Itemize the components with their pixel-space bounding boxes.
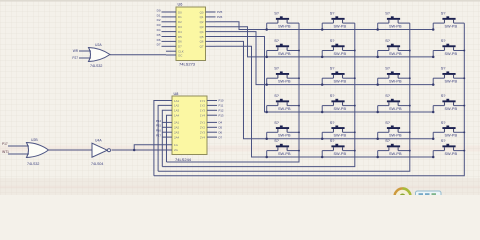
junction dot row6 col4 bbox=[432, 156, 435, 159]
svg-text:OC: OC bbox=[178, 53, 182, 57]
junction dot row2 col4 bbox=[432, 56, 435, 59]
junction dot row6 col3 bbox=[376, 156, 379, 159]
svg-text:S?: S? bbox=[385, 38, 391, 43]
junction dot column2 row4 bbox=[354, 105, 356, 107]
svg-text:74LS273: 74LS273 bbox=[179, 61, 196, 66]
junction dot row2 col2 bbox=[321, 56, 324, 59]
wire U6 Q3 to matrix row2 bbox=[216, 27, 434, 57]
svg-text:S?: S? bbox=[274, 11, 280, 16]
switch S2 SW-PB row1 col2 bbox=[322, 16, 355, 29]
switch S8 SW-PB row2 col4 bbox=[433, 44, 464, 57]
junction dot column1 row3 bbox=[298, 77, 300, 79]
U6 CLK pin stub bbox=[166, 50, 176, 52]
switch S6 SW-PB row2 col2 bbox=[322, 44, 355, 57]
svg-text:S?: S? bbox=[274, 38, 280, 43]
svg-text:D1: D1 bbox=[157, 13, 161, 17]
junction dot row4 col1 bbox=[265, 111, 268, 114]
svg-text:SW-PB: SW-PB bbox=[334, 152, 347, 156]
switch S4 SW-PB row1 col4 bbox=[433, 16, 464, 29]
switch S10 SW-PB row3 col2 bbox=[322, 71, 355, 84]
U8 2A pins stubs with net labels bbox=[156, 119, 172, 138]
svg-text:WR: WR bbox=[73, 49, 79, 53]
svg-text:Q5: Q5 bbox=[200, 35, 204, 39]
junction dot column2 row5 bbox=[354, 131, 356, 133]
junction dot enable branch bbox=[133, 149, 136, 152]
inverter U4A 74LS04 bbox=[92, 143, 111, 157]
junction dot row3 col2 bbox=[321, 83, 324, 86]
svg-text:D1: D1 bbox=[178, 15, 182, 19]
or-gate U2B 74LS32 bbox=[27, 143, 49, 158]
svg-text:Q2: Q2 bbox=[200, 20, 204, 24]
switch S18 SW-PB row5 col2 bbox=[322, 126, 355, 139]
junction dot column1 row2 bbox=[298, 50, 300, 52]
U6 OC pin (driven by gate U2A) bbox=[166, 54, 176, 56]
switch S11 SW-PB row3 col3 bbox=[378, 71, 410, 84]
wire U6 Q2 to matrix row1 bbox=[216, 22, 434, 30]
junction dot column1 row6 bbox=[298, 150, 300, 152]
svg-text:Q6: Q6 bbox=[200, 40, 204, 44]
svg-text:SW-PB: SW-PB bbox=[278, 107, 291, 111]
svg-text:S?: S? bbox=[330, 120, 336, 125]
svg-text:2A4: 2A4 bbox=[174, 135, 180, 139]
svg-text:SW-PB: SW-PB bbox=[389, 25, 402, 29]
U2A input wire WR bbox=[79, 50, 91, 52]
svg-text:SW-PB: SW-PB bbox=[278, 52, 291, 56]
svg-text:74LS244: 74LS244 bbox=[175, 157, 192, 162]
svg-text:S?: S? bbox=[330, 38, 336, 43]
svg-text:SW-PB: SW-PB bbox=[389, 107, 402, 111]
switch S16 SW-PB row4 col4 bbox=[433, 99, 464, 112]
svg-text:P16: P16 bbox=[156, 129, 162, 133]
svg-text:P10: P10 bbox=[219, 99, 224, 103]
svg-text:S?: S? bbox=[274, 66, 280, 71]
svg-text:SW-PB: SW-PB bbox=[445, 80, 458, 84]
svg-text:D6: D6 bbox=[157, 38, 161, 42]
svg-text:S?: S? bbox=[330, 93, 336, 98]
svg-text:D4: D4 bbox=[157, 28, 161, 32]
wire matrix column 3 vertical bbox=[158, 23, 410, 171]
svg-text:D7: D7 bbox=[219, 135, 223, 139]
svg-text:S?: S? bbox=[385, 120, 391, 125]
svg-text:D5: D5 bbox=[157, 33, 161, 37]
junction dot row1 col2 bbox=[321, 28, 324, 31]
svg-text:2A3: 2A3 bbox=[174, 131, 180, 135]
switch S19 SW-PB row5 col3 bbox=[378, 126, 410, 139]
svg-text:U6: U6 bbox=[178, 3, 183, 7]
svg-text:P12: P12 bbox=[219, 109, 224, 113]
svg-text:SW-PB: SW-PB bbox=[389, 152, 402, 156]
svg-text:S?: S? bbox=[385, 11, 391, 16]
svg-text:1A4: 1A4 bbox=[174, 114, 180, 118]
junction dot row2 col1 bbox=[265, 56, 268, 59]
svg-text:Q3: Q3 bbox=[200, 25, 204, 29]
switch S9 SW-PB row3 col1 bbox=[267, 71, 299, 84]
switch S12 SW-PB row3 col4 bbox=[433, 71, 464, 84]
wire U2A output to U6 OC pin bbox=[110, 54, 166, 56]
svg-text:SW-PB: SW-PB bbox=[334, 80, 347, 84]
wire U6 Q5 to matrix row4 bbox=[216, 37, 434, 113]
junction dot column4 row2 bbox=[463, 50, 465, 52]
junction dot column4 row3 bbox=[463, 77, 465, 79]
junction dot column2 row6 bbox=[354, 150, 356, 152]
U2B input wire P17 bbox=[8, 145, 29, 147]
svg-text:SW-PB: SW-PB bbox=[334, 52, 347, 56]
svg-text:Q0: Q0 bbox=[200, 10, 204, 14]
svg-text:SW-PB: SW-PB bbox=[445, 134, 458, 138]
U8 1G pin branch wire bbox=[134, 145, 172, 150]
svg-text:S?: S? bbox=[441, 138, 447, 143]
svg-text:S?: S? bbox=[274, 138, 280, 143]
junction dot row3 col4 bbox=[432, 83, 435, 86]
svg-text:S?: S? bbox=[330, 11, 336, 16]
svg-text:1A1: 1A1 bbox=[174, 99, 180, 103]
switch S1 SW-PB row1 col1 bbox=[267, 16, 299, 29]
svg-text:2A2: 2A2 bbox=[174, 126, 180, 130]
svg-text:D2: D2 bbox=[157, 18, 161, 22]
junction dot column3 row3 bbox=[409, 77, 411, 79]
svg-text:2Y2: 2Y2 bbox=[200, 126, 206, 130]
svg-text:D4: D4 bbox=[178, 30, 182, 34]
wire 1A4 bus bbox=[167, 115, 173, 162]
svg-text:P11: P11 bbox=[219, 104, 224, 108]
junction dot row5 col2 bbox=[321, 137, 324, 140]
svg-text:S?: S? bbox=[385, 138, 391, 143]
junction dot column3 row6 bbox=[409, 150, 411, 152]
wire U6 Q4 to matrix row3 bbox=[216, 32, 434, 85]
junction dot row1 col4 bbox=[432, 28, 435, 31]
switch S22 SW-PB row6 col2 bbox=[322, 144, 355, 157]
switch S21 SW-PB row6 col1 bbox=[267, 144, 299, 157]
svg-text:74LS32: 74LS32 bbox=[90, 64, 102, 68]
U2A input wire P27 bbox=[79, 57, 91, 59]
wire matrix column 1 vertical bbox=[167, 23, 300, 162]
U8 right pins 1Y/2Y stubs with labels bbox=[207, 99, 224, 140]
svg-text:D3: D3 bbox=[157, 23, 161, 27]
junction dot column3 row2 bbox=[409, 50, 411, 52]
junction dot column2 row2 bbox=[354, 50, 356, 52]
svg-text:S?: S? bbox=[330, 138, 336, 143]
svg-text:74LS04: 74LS04 bbox=[91, 162, 103, 166]
switch S5 SW-PB row2 col1 bbox=[267, 44, 299, 57]
wire matrix column 2 vertical bbox=[162, 23, 354, 167]
switch S24 SW-PB row6 col4 bbox=[433, 144, 464, 157]
svg-text:2A1: 2A1 bbox=[174, 121, 180, 125]
junction dot row4 col3 bbox=[376, 111, 379, 114]
switch S17 SW-PB row5 col1 bbox=[267, 126, 299, 139]
switch S7 SW-PB row2 col3 bbox=[378, 44, 410, 57]
svg-text:SW-PB: SW-PB bbox=[278, 80, 291, 84]
junction dot row1 col3 bbox=[376, 28, 379, 31]
junction dot column1 row5 bbox=[298, 131, 300, 133]
or-gate U2A 74LS32 bbox=[89, 48, 111, 62]
svg-text:SW-PB: SW-PB bbox=[334, 25, 347, 29]
svg-text:S?: S? bbox=[441, 93, 447, 98]
junction dot row4 col2 bbox=[321, 111, 324, 114]
junction dot row1 col1 bbox=[265, 28, 268, 31]
svg-text:SW-PB: SW-PB bbox=[389, 80, 402, 84]
svg-text:D0: D0 bbox=[157, 8, 161, 12]
svg-text:SW-PB: SW-PB bbox=[445, 107, 458, 111]
svg-text:SW-PB: SW-PB bbox=[334, 107, 347, 111]
svg-text:D7: D7 bbox=[157, 43, 161, 47]
svg-text:D6: D6 bbox=[178, 40, 182, 44]
svg-text:1A3: 1A3 bbox=[174, 109, 180, 113]
svg-text:U2B: U2B bbox=[31, 138, 38, 142]
svg-text:U4A: U4A bbox=[95, 139, 102, 143]
svg-text:Q4: Q4 bbox=[200, 30, 204, 34]
svg-text:SW-PB: SW-PB bbox=[445, 25, 458, 29]
switch S14 SW-PB row4 col2 bbox=[322, 99, 355, 112]
svg-text:P27: P27 bbox=[72, 56, 78, 60]
svg-text:P14: P14 bbox=[156, 119, 162, 123]
wire U6 Q7 to matrix row6 bbox=[216, 46, 434, 157]
svg-text:D6: D6 bbox=[219, 130, 223, 134]
U6 left data pins D0-D7 with net stubs bbox=[157, 8, 176, 46]
svg-text:SW-PB: SW-PB bbox=[278, 134, 291, 138]
svg-text:1Y4: 1Y4 bbox=[200, 114, 206, 118]
junction dot row5 col3 bbox=[376, 137, 379, 140]
junction dot column3 row5 bbox=[409, 131, 411, 133]
svg-text:S?: S? bbox=[441, 120, 447, 125]
svg-text:D5: D5 bbox=[178, 35, 182, 39]
junction dot column4 row5 bbox=[463, 131, 465, 133]
svg-text:U8: U8 bbox=[174, 92, 179, 96]
wire 1A1 bus bbox=[154, 101, 172, 176]
wire 1A3 bus bbox=[162, 110, 172, 166]
U6 right pins Q0-Q7 bbox=[206, 12, 216, 46]
svg-text:D4: D4 bbox=[219, 121, 223, 125]
wire U6 Q6 to matrix row5 bbox=[216, 41, 434, 138]
svg-text:SW-PB: SW-PB bbox=[278, 152, 291, 156]
svg-text:Q1: Q1 bbox=[200, 15, 204, 19]
svg-text:S?: S? bbox=[274, 93, 280, 98]
watermark text box bbox=[416, 191, 442, 200]
svg-text:S?: S? bbox=[385, 66, 391, 71]
svg-text:SW-PB: SW-PB bbox=[334, 134, 347, 138]
svg-text:Q7: Q7 bbox=[200, 45, 204, 49]
svg-text:D7: D7 bbox=[178, 45, 182, 49]
svg-text:P26: P26 bbox=[217, 15, 223, 19]
svg-text:INT1: INT1 bbox=[2, 150, 9, 154]
svg-text:P13: P13 bbox=[219, 113, 224, 117]
svg-text:2Y1: 2Y1 bbox=[200, 121, 206, 125]
svg-text:1Y2: 1Y2 bbox=[200, 104, 206, 108]
svg-text:S?: S? bbox=[385, 93, 391, 98]
svg-text:D2: D2 bbox=[178, 20, 182, 24]
junction dot column4 row6 bbox=[463, 150, 465, 152]
svg-text:SW-PB: SW-PB bbox=[445, 52, 458, 56]
junction dot column4 row4 bbox=[463, 105, 465, 107]
junction dot column1 row4 bbox=[298, 105, 300, 107]
junction dot column2 row3 bbox=[354, 77, 356, 79]
junction dot row5 col1 bbox=[265, 137, 268, 140]
svg-text:S?: S? bbox=[441, 11, 447, 16]
svg-text:P15: P15 bbox=[156, 124, 162, 128]
switch S15 SW-PB row4 col3 bbox=[378, 99, 410, 112]
junction dot column3 row4 bbox=[409, 105, 411, 107]
svg-text:1Y3: 1Y3 bbox=[200, 109, 206, 113]
svg-text:P25: P25 bbox=[217, 10, 223, 14]
svg-text:1Y1: 1Y1 bbox=[200, 99, 206, 103]
junction dot row3 col3 bbox=[376, 83, 379, 86]
svg-text:D3: D3 bbox=[178, 25, 182, 29]
svg-text:S?: S? bbox=[441, 38, 447, 43]
junction dot row6 col1 bbox=[265, 156, 268, 159]
svg-text:S?: S? bbox=[330, 66, 336, 71]
junction dot row4 col4 bbox=[432, 111, 435, 114]
junction dot row2 col3 bbox=[376, 56, 379, 59]
switch S20 SW-PB row5 col4 bbox=[433, 126, 464, 139]
U2B input wire INT1 bbox=[8, 153, 29, 155]
svg-text:D5: D5 bbox=[219, 126, 223, 130]
switch S23 SW-PB row6 col3 bbox=[378, 144, 410, 157]
junction dot row5 col4 bbox=[432, 137, 435, 140]
svg-text:74LS32: 74LS32 bbox=[27, 162, 39, 166]
IC U8 74LS244 body bbox=[172, 96, 207, 155]
wire 1A2 bus bbox=[158, 105, 172, 171]
switch S13 SW-PB row4 col1 bbox=[267, 99, 299, 112]
svg-text:1A2: 1A2 bbox=[174, 104, 180, 108]
U8 2G enable wire from U4A bbox=[112, 149, 173, 151]
wire U2B output to U4A input bbox=[49, 149, 93, 151]
svg-text:D0: D0 bbox=[178, 10, 182, 14]
IC U6 74LS273 body bbox=[176, 7, 206, 61]
svg-text:P17: P17 bbox=[2, 142, 8, 146]
svg-text:SW-PB: SW-PB bbox=[389, 134, 402, 138]
svg-text:S?: S? bbox=[441, 66, 447, 71]
svg-text:SW-PB: SW-PB bbox=[278, 25, 291, 29]
junction dot row6 col2 bbox=[321, 156, 324, 159]
svg-text:SW-PB: SW-PB bbox=[445, 152, 458, 156]
svg-text:U2A: U2A bbox=[95, 43, 102, 47]
junction dot row3 col1 bbox=[265, 83, 268, 86]
svg-text:P17: P17 bbox=[156, 134, 162, 138]
svg-text:2Y4: 2Y4 bbox=[200, 135, 206, 139]
svg-text:S?: S? bbox=[274, 120, 280, 125]
svg-text:2Y3: 2Y3 bbox=[200, 131, 206, 135]
watermark logo circle bbox=[395, 189, 411, 205]
wire matrix column 4 vertical bbox=[154, 23, 464, 176]
switch S3 SW-PB row1 col3 bbox=[378, 16, 410, 29]
svg-text:SW-PB: SW-PB bbox=[389, 52, 402, 56]
